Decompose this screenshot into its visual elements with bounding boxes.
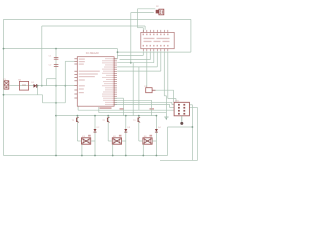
junction: [55, 85, 57, 87]
connector SV1 box: [174, 102, 189, 116]
wire vertical x65.3: [64, 61, 66, 103]
diode D2: [94, 129, 97, 132]
wire net GND left edge: [3, 19, 5, 155]
net label REL2: [120, 108, 125, 109]
junction: [125, 115, 127, 117]
wire long vertical x138.9: [138, 67, 140, 110]
junction: [94, 115, 96, 117]
wire y110.2: [78, 109, 174, 111]
junction: [55, 155, 57, 157]
relay K3: [143, 138, 152, 144]
svg-text:IC1 MEGA8: IC1 MEGA8: [86, 52, 99, 55]
resistor R1: [146, 88, 152, 93]
junction: [3, 48, 5, 50]
wire SV1 right loop outer: [160, 159, 198, 161]
wire net GND bottom run: [4, 155, 168, 157]
wire K3 under-box vertical: [142, 144, 144, 155]
relay K2: [112, 138, 121, 144]
wire K2 stubs: [108, 140, 112, 142]
wire y94.8: [4, 94, 43, 96]
junction: [138, 115, 140, 117]
rectifier B1: [19, 81, 28, 90]
node earth dot: [180, 122, 183, 125]
diode D1: [34, 84, 37, 88]
wire K1 stubs: [77, 140, 81, 142]
op-amp IC1 microcontroller box: [77, 57, 114, 106]
capacitor C2: [54, 64, 59, 66]
wire cell K3 left vertical: [138, 116, 140, 141]
wire cell K1 left vertical: [76, 116, 78, 141]
junction: [130, 62, 132, 64]
connector X1: [4, 81, 9, 89]
wire staircase s4: [153, 51, 155, 62]
wire cell K1 right vertical: [94, 116, 96, 156]
wire jog x42.5: [42, 95, 44, 103]
junction: [55, 102, 57, 104]
junction: [3, 94, 5, 96]
wire pot lower x130.8: [131, 12, 154, 14]
wire y100.3: [115, 99, 152, 101]
wire y78.7: [47, 78, 57, 80]
wire gnd drop x166.4: [165, 96, 167, 117]
IC1 bottom-right text: [100, 107, 112, 109]
relay K1: [82, 138, 91, 144]
wire y104.4: [115, 103, 170, 105]
wire y112.7: [99, 112, 167, 114]
junction: [41, 85, 43, 87]
wire net GND top edge: [4, 18, 191, 20]
wire SV1 bottom stub: [181, 116, 183, 122]
wire pot to LCD x137.5: [137, 9, 139, 28]
IC1 left pin labels: [79, 59, 85, 60]
IC1 right pins: [114, 58, 117, 60]
wire y52 run to IC: [118, 51, 191, 53]
IC1 right pin labels: [105, 58, 112, 59]
potentiometer R2: [159, 9, 164, 15]
IC1 left pins: [74, 58, 77, 60]
wire y98.2: [115, 97, 124, 99]
wire K2 under-box vertical: [112, 144, 114, 155]
wire resistor to connector: [156, 89, 174, 91]
LCD1 bottom pins: [142, 49, 144, 52]
junction: [64, 85, 66, 87]
ground symbol: [164, 116, 168, 118]
diode D4: [155, 129, 158, 132]
SV1 pads: [178, 104, 180, 106]
wire net2 left vertical x41.8: [41, 26, 43, 86]
net label REL3: [150, 108, 155, 109]
wire right drop from top edge: [190, 19, 192, 52]
junction: [156, 115, 158, 117]
wire bus y115.6: [56, 115, 156, 117]
wire right loop up from bottom: [167, 127, 169, 156]
wire long vertical x133.2: [132, 63, 134, 116]
wire VCC drop to IC pin: [117, 49, 119, 59]
transistor T2: [106, 118, 108, 122]
wire LCD pin7 drop: [163, 51, 165, 95]
wire cell K2 right vertical: [125, 116, 127, 156]
wire net2 top y26: [42, 25, 145, 27]
wire cell K3 right vertical: [155, 116, 157, 156]
LCD1 pin numbers top: [143, 34, 144, 36]
wire cap chain x55.2: [55, 49, 57, 156]
wire staircase s1: [142, 51, 144, 55]
LCD1 pin numbers bottom: [143, 45, 144, 47]
junction: [117, 51, 119, 53]
wire y102.3: [115, 101, 172, 103]
junction: [37, 85, 39, 87]
junction: [77, 115, 79, 117]
junction: [192, 126, 194, 128]
wire y102.8: [43, 102, 66, 104]
LCD1 connector box: [141, 32, 174, 48]
diode D3: [124, 129, 127, 132]
wire K1 under-box vertical: [81, 144, 83, 155]
wire power drop x37.5: [37, 86, 39, 95]
junction: [107, 115, 109, 117]
wire K3 stubs: [139, 140, 143, 142]
wire staircase s5: [156, 51, 158, 67]
wire net2 drop to LCD pin: [144, 26, 146, 30]
transistor T3: [137, 118, 139, 122]
wire xtal pin y61.3: [65, 60, 74, 62]
LCD1 inner labels: [144, 38, 155, 39]
wire LCD pin8 drop: [167, 51, 169, 98]
transistor T1: [76, 118, 78, 122]
junction: [55, 115, 57, 117]
wire LCD pin to resistor x146.8: [146, 51, 148, 87]
LCD1 top pins: [142, 30, 144, 33]
junction: [55, 48, 57, 50]
wire power rail y85.6: [11, 85, 75, 87]
capacitor C1: [54, 56, 59, 58]
wire VCC rail y48.6: [4, 48, 118, 50]
wire cell K2 left vertical: [107, 116, 109, 141]
wire staircase s6: [160, 51, 162, 71]
wire staircase s3: [149, 51, 151, 59]
